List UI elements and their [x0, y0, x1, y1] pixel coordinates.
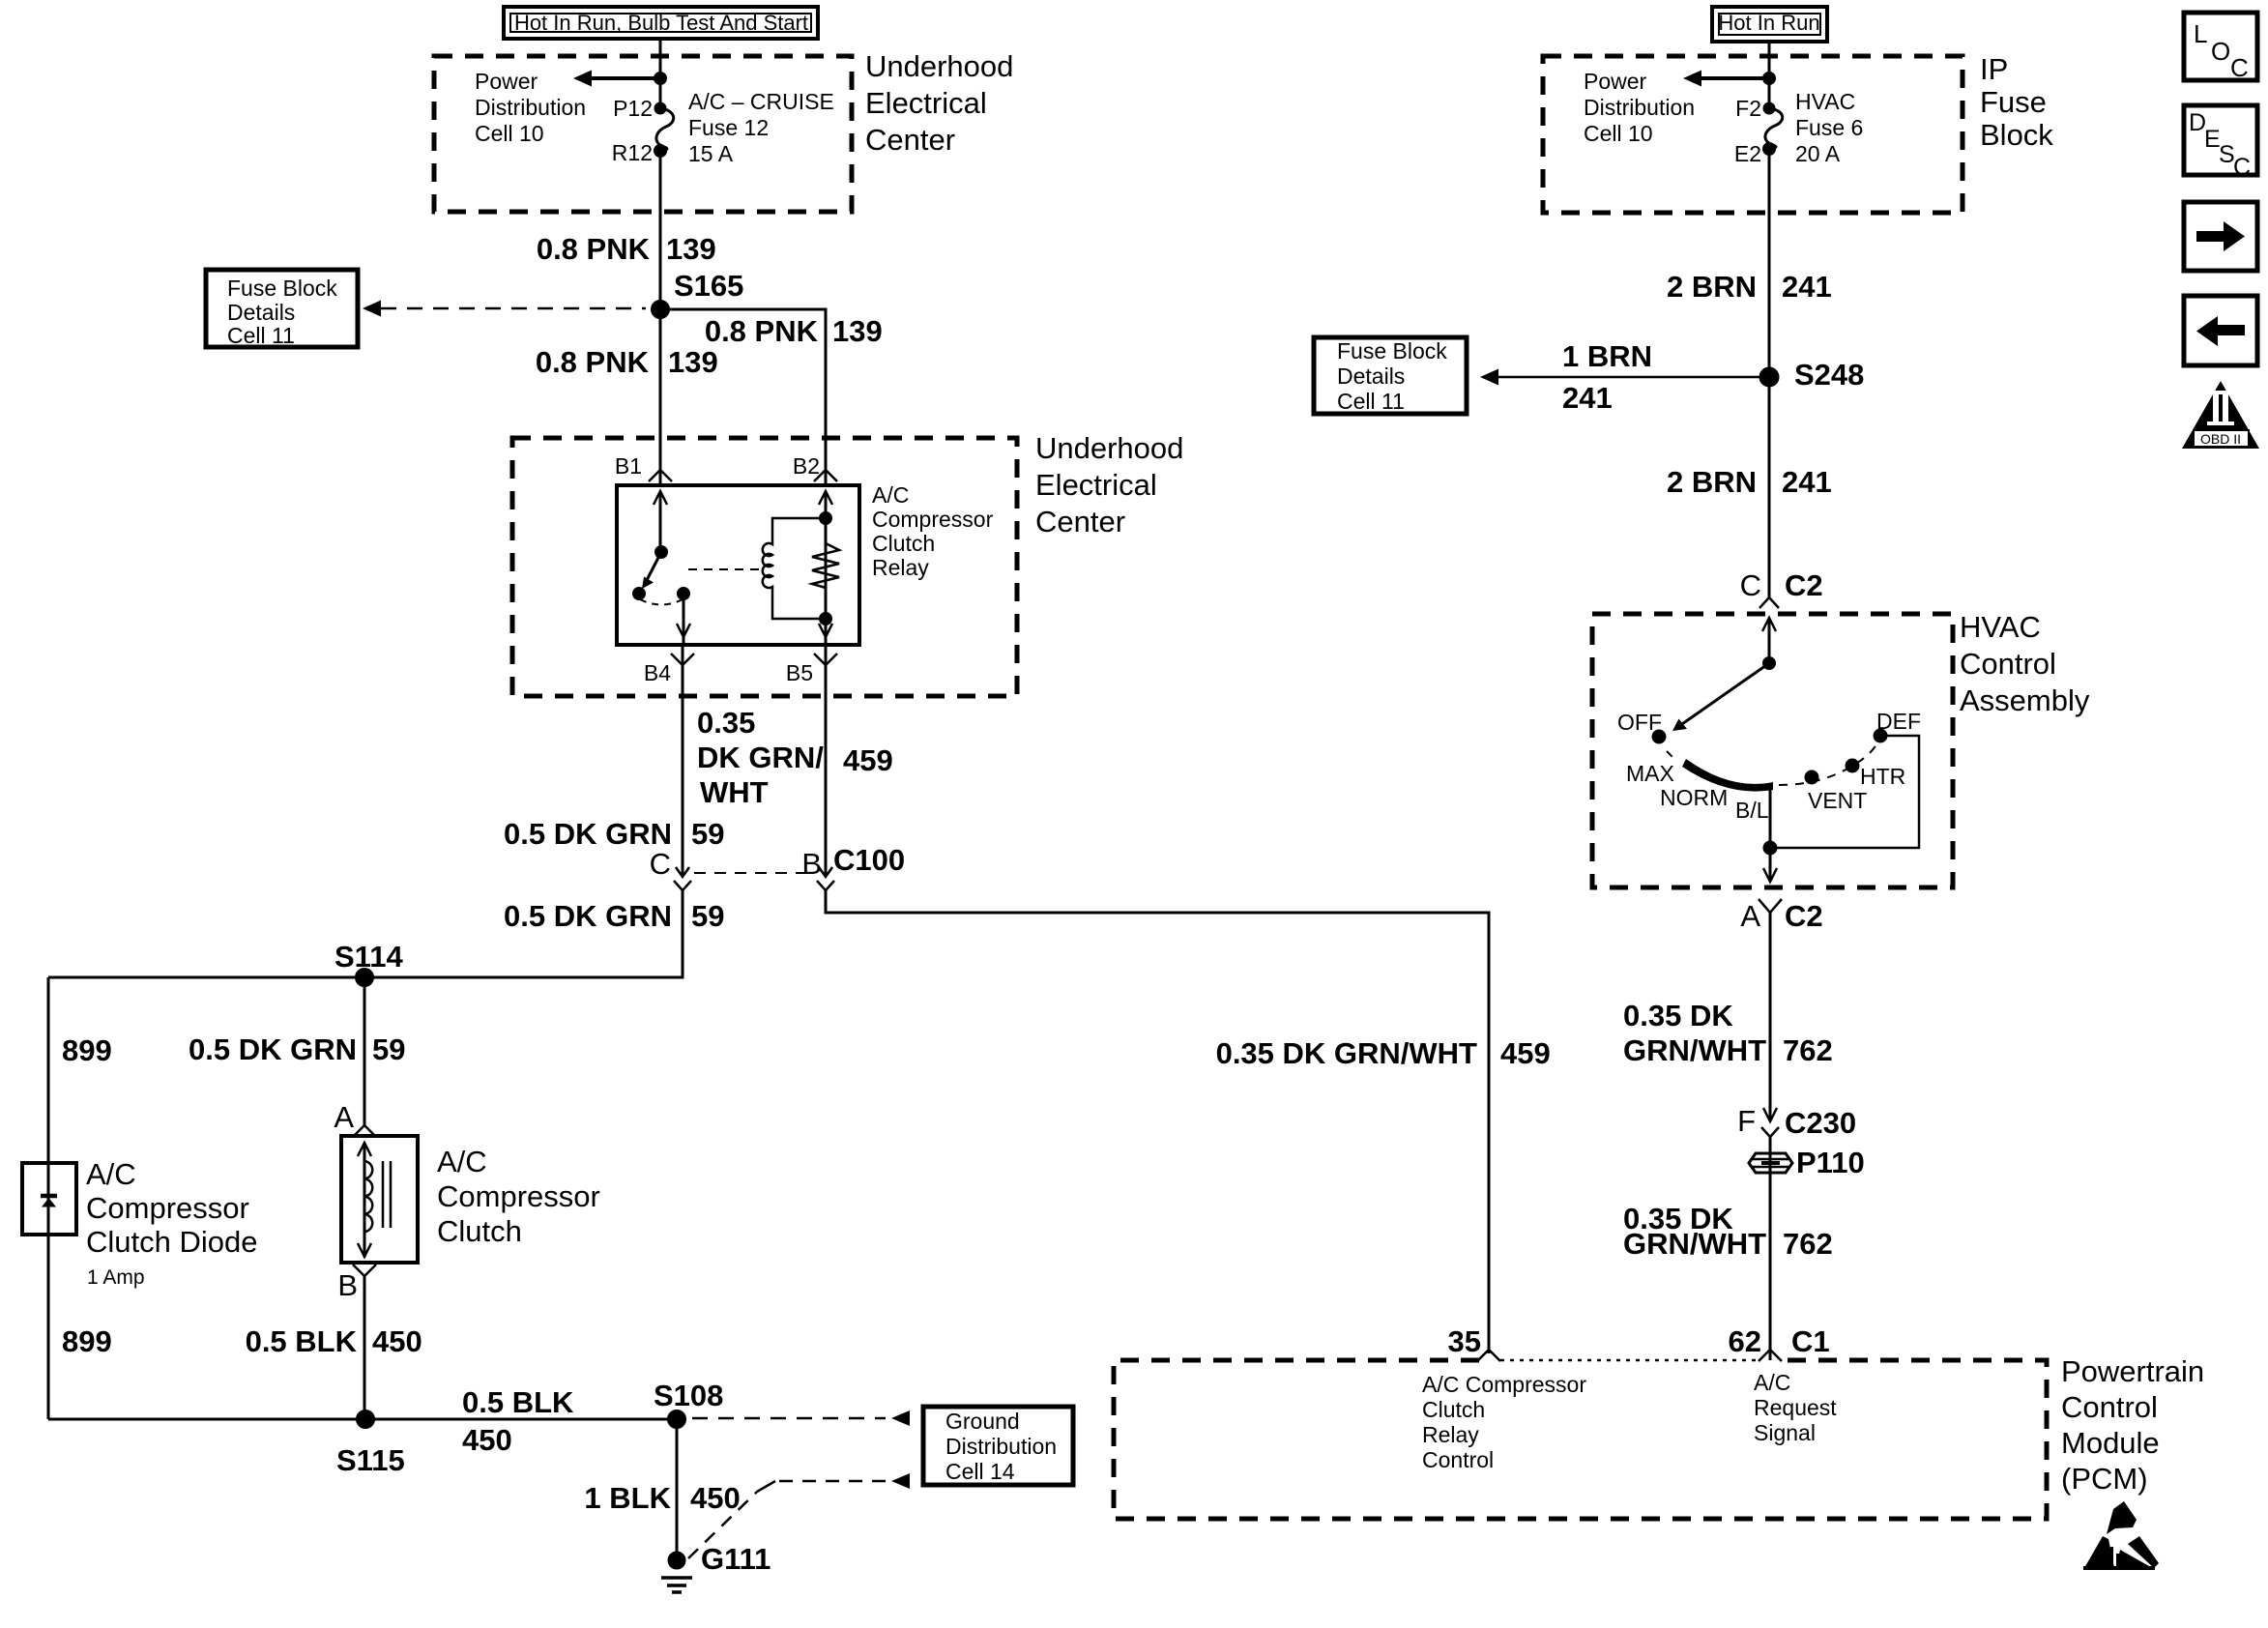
svg-text:Details: Details	[227, 300, 295, 325]
ESD sensitivity symbol	[2083, 1501, 2159, 1570]
relay dashed actuation link	[688, 568, 764, 570]
arrowhead at fuse block details right	[1480, 369, 1498, 386]
svg-text:Distribution: Distribution	[1584, 95, 1695, 120]
svg-text:241: 241	[1782, 465, 1832, 499]
svg-text:C: C	[2233, 154, 2251, 181]
svg-text:Fuse 6: Fuse 6	[1795, 115, 1863, 140]
node S248	[1760, 368, 1778, 386]
arrowhead at fuse block details	[363, 301, 381, 317]
svg-text:0.5 BLK: 0.5 BLK	[462, 1385, 574, 1419]
svg-text:HTR: HTR	[1860, 764, 1905, 789]
svg-text:450: 450	[372, 1324, 422, 1358]
svg-text:Distribution: Distribution	[475, 95, 586, 120]
wire label 1 BLK 450	[584, 1481, 740, 1515]
svg-text:139: 139	[668, 345, 718, 379]
clutch coil bumps	[364, 1161, 372, 1232]
pin dot E2	[1764, 144, 1775, 155]
svg-text:0.8 PNK: 0.8 PNK	[537, 232, 651, 266]
svg-text:Fuse Block: Fuse Block	[1337, 338, 1447, 363]
fuse block details box (left)	[206, 270, 358, 348]
dashed reference S108 to ground distribution	[692, 1417, 886, 1420]
dashed reference G111 to ground distribution	[688, 1481, 886, 1558]
svg-text:2 BRN: 2 BRN	[1667, 465, 1757, 499]
relay switch pivot dot	[656, 547, 667, 558]
wire from header box into UEC	[659, 39, 662, 108]
svg-text:C230: C230	[1785, 1106, 1856, 1140]
pin chevron B5	[814, 654, 837, 665]
svg-text:Details: Details	[1337, 363, 1405, 389]
svg-text:A/C: A/C	[86, 1157, 136, 1191]
wire C230 to P110	[1769, 1137, 1772, 1360]
svg-text:15 A: 15 A	[688, 141, 734, 166]
diode loop wire left	[47, 977, 50, 1166]
svg-text:G111: G111	[701, 1542, 771, 1576]
svg-text:139: 139	[832, 314, 883, 348]
wire label 0.8 PNK 139 (branch right)	[705, 314, 883, 348]
svg-text:B5: B5	[786, 660, 813, 685]
svg-text:WHT: WHT	[700, 775, 769, 809]
wire label 0.5 BLK 450 (S115 to S108)	[462, 1385, 574, 1457]
svg-text:E2: E2	[1734, 141, 1761, 166]
svg-text:S114: S114	[334, 940, 403, 974]
svg-text:0.5 DK GRN: 0.5 DK GRN	[504, 817, 672, 851]
HVAC output wire with down arrow	[1763, 848, 1777, 882]
svg-text:Control: Control	[2061, 1390, 2158, 1424]
svg-text:Cell 10: Cell 10	[475, 121, 544, 146]
svg-text:Electrical: Electrical	[1035, 468, 1157, 502]
wire label 0.8 PNK 139 (first)	[537, 232, 716, 266]
svg-text:62: 62	[1729, 1324, 1761, 1358]
svg-text:459: 459	[843, 743, 893, 777]
svg-text:Power: Power	[1584, 69, 1647, 94]
svg-text:Signal: Signal	[1754, 1420, 1816, 1445]
svg-text:Cell 11: Cell 11	[227, 323, 295, 348]
svg-text:59: 59	[691, 899, 724, 933]
svg-text:0.35 DK: 0.35 DK	[1623, 999, 1733, 1032]
svg-text:Distribution: Distribution	[945, 1434, 1057, 1459]
ground symbol G111	[661, 1578, 692, 1592]
svg-text:A/C: A/C	[1754, 1370, 1790, 1395]
DEF contact dot	[1875, 730, 1886, 741]
wire from Hot In Run into IP fuse block	[1768, 42, 1771, 108]
svg-text:MAX: MAX	[1626, 761, 1674, 786]
svg-text:241: 241	[1782, 270, 1832, 304]
svg-text:C: C	[1740, 568, 1761, 602]
relay output wire with down arrow	[677, 594, 690, 645]
svg-text:Hot In Run: Hot In Run	[1718, 11, 1819, 35]
label A/C Compressor Clutch	[437, 1145, 600, 1248]
svg-text:(PCM): (PCM)	[2061, 1462, 2148, 1496]
svg-text:A/C: A/C	[872, 482, 909, 508]
wire label 0.5 BLK 450 (clutch to S115)	[246, 1324, 422, 1358]
svg-text:NORM: NORM	[1660, 785, 1728, 810]
relay output contact dot	[679, 589, 689, 599]
svg-text:Power: Power	[475, 69, 538, 94]
diode loop wire to bottom run	[47, 1234, 50, 1419]
fuse F1 A/C-CRUISE squiggle	[656, 108, 674, 151]
svg-text:GRN/WHT: GRN/WHT	[1623, 1033, 1766, 1067]
node S165	[653, 302, 669, 318]
svg-text:899: 899	[62, 1033, 112, 1067]
svg-text:Cell 14: Cell 14	[945, 1459, 1015, 1484]
wire label 0.35 DK GRN/WHT 762 (upper)	[1623, 999, 1833, 1067]
B/L output wire	[1769, 786, 1772, 848]
svg-text:Module: Module	[2061, 1426, 2160, 1460]
svg-text:C100: C100	[833, 843, 905, 877]
svg-text:B1: B1	[615, 453, 642, 479]
svg-text:Request: Request	[1754, 1395, 1837, 1420]
node junction at power distribution tap right	[1764, 73, 1775, 84]
diode wire through box	[47, 1163, 50, 1235]
relay stationary contact dot left	[634, 589, 645, 599]
underhood electrical center box 2 (dashed)	[512, 438, 1017, 696]
wire label 0.35 DK GRN/WHT 762 (lower)	[1623, 1202, 1833, 1261]
svg-text:P110: P110	[1796, 1146, 1865, 1179]
relay box A/C compressor clutch relay	[617, 485, 859, 645]
svg-text:Underhood: Underhood	[1035, 431, 1183, 465]
svg-text:HVAC: HVAC	[1795, 89, 1855, 114]
wire to power distribution arrow	[589, 76, 660, 80]
OFF contact dot	[1653, 731, 1665, 742]
svg-text:2 BRN: 2 BRN	[1667, 270, 1757, 304]
pin chevron 35	[1477, 1350, 1500, 1361]
label A/C Compressor Clutch Relay Control	[1422, 1372, 1586, 1472]
VENT contact dot	[1806, 771, 1817, 783]
svg-text:0.8 PNK: 0.8 PNK	[705, 314, 819, 348]
fuse block details box (right)	[1314, 337, 1467, 414]
wire label 2 BRN 241 (upper)	[1667, 270, 1832, 304]
relay switch arm with arrowhead	[642, 552, 661, 589]
header box Hot In Run, Bulb Test And Start	[504, 7, 818, 39]
node junction at power distribution tap	[655, 73, 666, 84]
svg-text:139: 139	[666, 232, 716, 266]
label Powertrain Control Module (PCM)	[2061, 1354, 2204, 1496]
label Underhood Electrical Center (second)	[1035, 431, 1183, 538]
ground distribution box	[923, 1407, 1073, 1485]
svg-text:Relay: Relay	[1422, 1422, 1479, 1447]
svg-text:Compressor: Compressor	[872, 507, 994, 532]
svg-text:59: 59	[691, 817, 724, 851]
svg-text:F2: F2	[1735, 96, 1761, 121]
pin chevron C2 bottom	[1759, 899, 1782, 913]
svg-text:899: 899	[62, 1324, 112, 1358]
node S108	[669, 1411, 685, 1428]
wire S248 to fuse block details arrow	[1497, 376, 1769, 379]
dashed reference line S165 to fuse block details	[381, 307, 646, 310]
dashed arc OFF to MAX	[1667, 751, 1676, 761]
svg-text:B: B	[801, 847, 822, 881]
svg-text:1 BRN: 1 BRN	[1562, 339, 1652, 373]
wire label 0.5 DK GRN 59 (above clutch)	[189, 1032, 405, 1066]
svg-text:0.35: 0.35	[697, 706, 755, 740]
svg-text:1 BLK: 1 BLK	[584, 1481, 671, 1515]
wire label 0.35 DK GRN/ WHT 459	[697, 706, 893, 809]
svg-text:P12: P12	[613, 96, 653, 121]
svg-text:S248: S248	[1794, 358, 1864, 392]
HVAC output junction dot	[1764, 842, 1776, 854]
svg-text:F: F	[1737, 1104, 1756, 1138]
svg-text:A/C: A/C	[437, 1145, 487, 1178]
icon LOC box	[2184, 13, 2257, 82]
label Underhood Electrical Center (top)	[865, 49, 1013, 157]
icon DESC box	[2184, 105, 2257, 181]
svg-text:OFF: OFF	[1617, 710, 1662, 735]
svg-text:0.5 DK GRN: 0.5 DK GRN	[504, 899, 672, 933]
svg-text:S165: S165	[674, 269, 743, 303]
svg-text:Electrical: Electrical	[865, 86, 987, 120]
svg-text:0.5 BLK: 0.5 BLK	[246, 1324, 358, 1358]
pin dot F2	[1764, 103, 1774, 113]
connector C100 pin B arrow and chevron	[817, 867, 834, 890]
svg-text:0.35 DK GRN/WHT: 0.35 DK GRN/WHT	[1216, 1036, 1477, 1070]
svg-text:Fuse Block: Fuse Block	[227, 276, 337, 301]
svg-text:Clutch: Clutch	[1422, 1397, 1485, 1422]
svg-text:Cell 10: Cell 10	[1584, 121, 1653, 146]
svg-text:Compressor: Compressor	[437, 1179, 600, 1213]
ground G111 dot	[669, 1553, 684, 1568]
underhood electrical center box 1 (dashed)	[434, 56, 852, 212]
svg-text:Center: Center	[1035, 505, 1125, 538]
svg-text:Powertrain: Powertrain	[2061, 1354, 2204, 1388]
wire C100-C down and left to S114 run	[48, 890, 683, 977]
grommet P110 symbol	[1749, 1153, 1792, 1173]
svg-text:59: 59	[372, 1032, 405, 1066]
thick arc MAX-NORM-B/L	[1682, 759, 1773, 792]
label A/C - CRUISE Fuse 12 15 A	[688, 89, 834, 166]
A/C compressor clutch box	[341, 1136, 418, 1263]
wire label 0.5 DK GRN 59 (above C100)	[504, 817, 724, 851]
pin chevron B2	[814, 470, 837, 481]
pin chevron B1	[649, 470, 672, 481]
svg-text:Assembly: Assembly	[1960, 683, 2090, 717]
svg-text:OBD II: OBD II	[2200, 431, 2241, 447]
HVAC control assembly box (dashed)	[1592, 614, 1953, 887]
arrowhead wiper	[1672, 719, 1687, 732]
wire S108 down to G111	[676, 1419, 679, 1560]
wire HVAC A down to C230	[1769, 913, 1772, 1121]
connector C230 arrow and chevron	[1761, 1108, 1779, 1137]
clutch plates	[383, 1161, 391, 1228]
svg-text:0.5 DK GRN: 0.5 DK GRN	[189, 1032, 357, 1066]
ground bus wire S115 run	[48, 1418, 677, 1421]
svg-text:DK GRN/: DK GRN/	[697, 741, 824, 774]
label A/C Request Signal	[1754, 1370, 1837, 1445]
svg-text:C: C	[2230, 53, 2249, 82]
arrowhead power distribution left	[573, 71, 592, 87]
IP fuse block box (dashed)	[1543, 56, 1963, 213]
svg-text:Fuse: Fuse	[1980, 85, 2047, 119]
pin dot P12	[655, 103, 665, 113]
wire to power distribution arrow right	[1699, 76, 1769, 80]
label HVAC Fuse 6 20 A	[1795, 89, 1863, 166]
svg-text:B/L: B/L	[1735, 798, 1769, 823]
HVAC rotor pivot dot	[1764, 658, 1775, 669]
svg-text:DEF: DEF	[1876, 709, 1921, 734]
svg-text:R12: R12	[612, 140, 653, 165]
svg-text:Clutch Diode: Clutch Diode	[86, 1225, 257, 1259]
svg-text:B: B	[337, 1268, 358, 1302]
arrowhead ground distribution upper	[891, 1410, 910, 1426]
svg-text:1 Amp: 1 Amp	[87, 1266, 145, 1289]
svg-text:C: C	[650, 847, 671, 881]
wire label 0.5 DK GRN 59 (below C100)	[504, 899, 724, 933]
svg-text:762: 762	[1783, 1033, 1833, 1067]
svg-text:241: 241	[1562, 381, 1613, 415]
wire C100-B down and right to PCM pin 35	[826, 890, 1489, 1353]
wire S114 down to clutch A	[363, 977, 366, 1125]
coil tap dot bottom	[821, 614, 831, 625]
svg-text:Compressor: Compressor	[86, 1191, 249, 1225]
svg-text:C2: C2	[1785, 568, 1823, 602]
arrowhead power distribution right	[1683, 71, 1701, 87]
icon forward arrow box	[2184, 202, 2257, 271]
label A/C Compressor Clutch Relay	[872, 482, 994, 580]
svg-text:Block: Block	[1980, 118, 2053, 152]
HVAC feed up arrow	[1762, 618, 1776, 631]
svg-text:A/C – CRUISE: A/C – CRUISE	[688, 89, 834, 114]
svg-text:B4: B4	[644, 660, 671, 685]
svg-text:Center: Center	[865, 123, 955, 157]
svg-text:Relay: Relay	[872, 555, 929, 580]
svg-text:S108: S108	[654, 1379, 723, 1412]
svg-text:Fuse 12: Fuse 12	[688, 115, 769, 140]
wire S248 down to HVAC	[1768, 377, 1771, 597]
svg-text:A: A	[1740, 899, 1760, 933]
svg-text:35: 35	[1448, 1324, 1481, 1358]
svg-text:IP: IP	[1980, 52, 2008, 86]
wire label 0.35 DK GRN/WHT 459 (horizontal run)	[1216, 1036, 1551, 1070]
svg-text:A: A	[334, 1100, 354, 1134]
wire label 2 BRN 241 (lower)	[1667, 465, 1832, 499]
svg-text:B2: B2	[793, 453, 820, 479]
icon OBD II triangle	[2182, 381, 2259, 449]
wire label 1 BRN 241	[1562, 339, 1652, 415]
wire S165 branch right to B2	[660, 309, 826, 485]
svg-text:Hot In Run, Bulb Test And Star: Hot In Run, Bulb Test And Start	[514, 11, 808, 35]
svg-text:Underhood: Underhood	[865, 49, 1013, 83]
svg-text:0.8 PNK: 0.8 PNK	[536, 345, 650, 379]
svg-text:C2: C2	[1785, 899, 1823, 933]
svg-text:762: 762	[1783, 1227, 1833, 1261]
wire B5 down to C100	[825, 645, 828, 876]
wire label 0.8 PNK 139 (left above B1)	[536, 345, 718, 379]
svg-text:O: O	[2211, 37, 2230, 66]
wire fuse to S248	[1768, 149, 1771, 377]
pin chevron B clutch	[353, 1265, 376, 1276]
diode symbol	[41, 1196, 57, 1207]
connector C100 dashed body	[694, 872, 804, 874]
dashed arc B/L to DEF	[1779, 742, 1877, 785]
svg-text:S115: S115	[336, 1443, 405, 1477]
label Power Distribution Cell 10 (left)	[475, 69, 586, 146]
svg-text:Ground: Ground	[945, 1409, 1020, 1434]
node S114	[357, 970, 373, 986]
svg-text:459: 459	[1500, 1036, 1551, 1070]
wire clutch B down to S115	[363, 1276, 366, 1419]
relay switch common wire with up arrow	[654, 491, 667, 552]
pin chevron B4	[671, 654, 694, 665]
A/C compressor clutch diode box	[22, 1163, 76, 1235]
HTR contact dot	[1846, 760, 1858, 771]
node S115	[358, 1411, 374, 1428]
label HVAC Control Assembly	[1960, 610, 2090, 717]
svg-text:L: L	[2194, 19, 2207, 48]
powertrain control module box (dashed)	[1114, 1360, 2047, 1519]
DEF return wire	[1770, 736, 1919, 848]
svg-text:Control: Control	[1422, 1447, 1494, 1472]
svg-text:C1: C1	[1791, 1324, 1830, 1358]
icon back arrow box	[2184, 296, 2257, 365]
svg-text:HVAC: HVAC	[1960, 610, 2041, 644]
svg-text:A/C Compressor: A/C Compressor	[1422, 1372, 1586, 1397]
wire fuse to S165	[659, 151, 662, 309]
svg-text:Cell 11: Cell 11	[1337, 389, 1405, 414]
relay coil	[763, 518, 826, 619]
HVAC wiper arm to OFF	[1679, 663, 1769, 726]
svg-text:Control: Control	[1960, 647, 2056, 681]
relay coil branch wire B2 side with up arrow	[819, 491, 832, 645]
wire B4 down to C100	[682, 645, 684, 876]
arrowhead ground distribution lower	[891, 1473, 910, 1489]
svg-text:Clutch: Clutch	[872, 531, 935, 556]
pin dot R12	[655, 146, 666, 157]
pin chevron A	[353, 1125, 376, 1137]
label Power Distribution Cell 10 (right)	[1584, 69, 1695, 146]
pin chevron 62	[1759, 1350, 1782, 1361]
pin chevron C2 top	[1759, 597, 1779, 608]
fuse F6 HVAC squiggle	[1765, 108, 1783, 149]
wire into HVAC box	[1768, 618, 1771, 663]
svg-text:VENT: VENT	[1808, 788, 1867, 813]
coil tap dot top	[821, 513, 831, 524]
connector C100 pin C arrow and chevron	[674, 867, 691, 890]
header box Hot In Run	[1712, 7, 1827, 42]
label IP Fuse Block	[1980, 52, 2053, 152]
label A/C Compressor Clutch Diode	[86, 1157, 257, 1259]
svg-text:20 A: 20 A	[1795, 141, 1841, 166]
svg-text:450: 450	[690, 1481, 741, 1515]
svg-text:450: 450	[462, 1423, 512, 1457]
svg-text:GRN/WHT: GRN/WHT	[1623, 1227, 1766, 1261]
wire S165 down to B1	[659, 309, 662, 485]
relay resistor zigzag	[812, 518, 839, 619]
svg-text:Clutch: Clutch	[437, 1214, 522, 1248]
relay dashed travel arc	[640, 599, 683, 605]
clutch coil wire with arrows	[358, 1143, 371, 1257]
